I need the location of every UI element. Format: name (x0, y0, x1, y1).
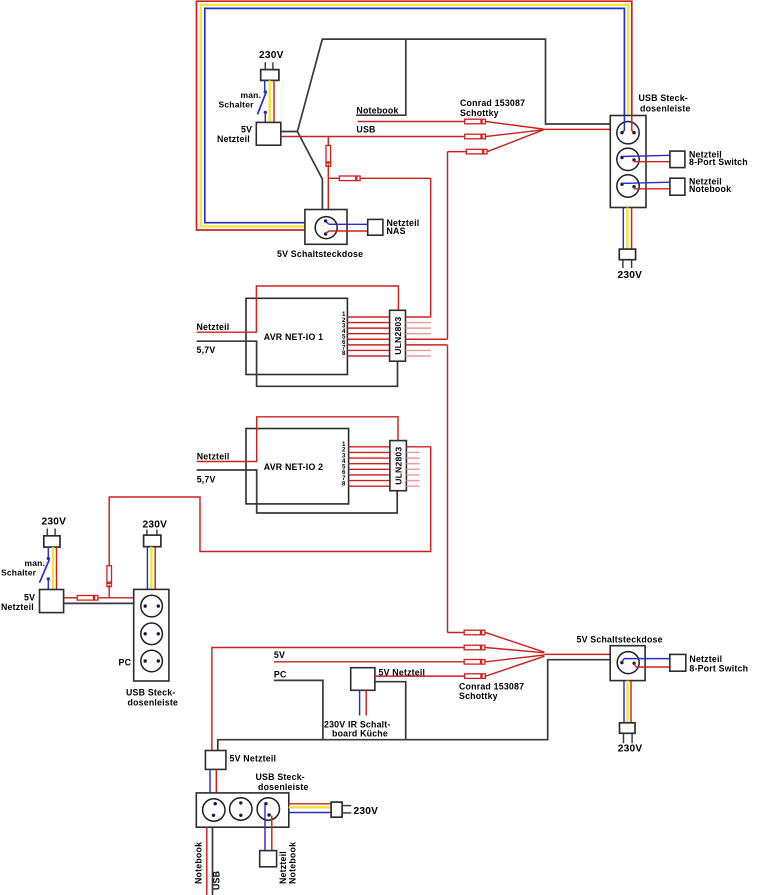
wire red feed (154, 547, 156, 590)
diode D11 (464, 630, 485, 635)
diode D7 (77, 596, 98, 601)
wire black usb down (212, 827, 214, 895)
wire red Notebook line (358, 121, 465, 123)
svg-text:ULN2803: ULN2803 (394, 447, 404, 485)
socket 2 (top strip) (617, 148, 639, 170)
stub ULN1 pin2 (406, 322, 432, 324)
svg-text:dosenleiste: dosenleiste (640, 104, 691, 114)
svg-text:5,7V: 5,7V (197, 475, 216, 485)
svg-text:Notebook: Notebook (194, 842, 204, 884)
power supply 5V Netzteil U1 (256, 122, 281, 145)
wire red bus B upper riser (447, 152, 449, 340)
wire red junction right (328, 177, 339, 179)
wire red plug to netzteil (273, 80, 275, 122)
wire blue schalt2 plug (623, 681, 625, 723)
svg-text:8: 8 (342, 350, 346, 357)
power supply Netzteil Notebook (top) (670, 178, 685, 195)
wire red plug to netzteil (bl) (56, 547, 58, 589)
switch man. Schalter (top) (258, 90, 267, 122)
stub ULN2 pin4 (406, 463, 419, 465)
wire red strip to plug (bottom) (289, 803, 331, 805)
diode D5 Conrad 153087 (466, 149, 487, 154)
prongs (strip feed plug) (147, 530, 157, 536)
wire blue B3 to notebook psu (264, 805, 266, 851)
stub ULN2 pin6 (406, 474, 419, 476)
label ULN2803 #1 (393, 317, 403, 355)
svg-text:Netzteil: Netzteil (1, 602, 34, 612)
plug 230V (bottom strip) (331, 802, 342, 817)
socket B3 (257, 798, 279, 820)
label 230V (bottom strip) (354, 806, 379, 817)
power supply 5V Netzteil U3 (351, 668, 375, 691)
wire red U3 line4 (375, 675, 465, 677)
pins socket 3 (620, 183, 635, 189)
stub ULN1 pin8 (406, 355, 432, 357)
wire red ULN1 pin1 out (406, 316, 431, 318)
diode D6 vertical (107, 566, 112, 587)
wire red ULN1 pin5 out (406, 338, 448, 340)
label Notebook (rotated) (194, 842, 204, 884)
wire yellow plug to netzteil (269, 80, 272, 122)
socket L3 (141, 650, 163, 672)
wire red netzteil 5V line (281, 136, 465, 138)
label ULN2803 #2 (394, 447, 404, 485)
label 5V Netzteil (U4) (230, 754, 277, 764)
svg-text:Schottky: Schottky (459, 691, 498, 701)
label PC (left strip) (119, 657, 132, 667)
wire blue to NAS psu (326, 222, 368, 225)
svg-text:230V: 230V (143, 520, 168, 531)
label 230V (bottom left) (42, 516, 67, 527)
wire black 5,7V AVR2 (197, 470, 398, 513)
plug 230V (top right) (619, 249, 635, 260)
wire red D7 to strip (98, 597, 134, 599)
plug 230V bottom-left (44, 536, 60, 547)
label Conrad 153087 (bottom) (459, 681, 524, 691)
socket circle (schaltsteckdose top) (315, 217, 337, 239)
label Netzteil (U2) (1, 602, 34, 612)
label Conrad 153087 (top) (460, 98, 525, 108)
plug 230V top-left prongs (265, 62, 273, 69)
label Notebook (rotated U5) (288, 842, 298, 884)
wire red D1 to fan (486, 122, 544, 130)
label 230V (strip feed) (143, 520, 168, 531)
wires AVR1 pins to ULN1 (347, 317, 389, 356)
wire black 5,7V AVR1 (197, 341, 398, 386)
svg-text:230V: 230V (259, 50, 284, 61)
socket circle (schaltsteckdose bottom) (617, 652, 639, 674)
svg-text:Netzteil: Netzteil (217, 134, 250, 144)
label 5V Netzteil (U3) (379, 668, 426, 678)
wire blue socket2 to switch-psu (622, 155, 670, 156)
wire red D6 to junction (108, 585, 110, 598)
power supply Netzteil 8-Port Switch (top) (670, 151, 685, 168)
wire red U4 to strip (215, 769, 217, 803)
svg-text:8-Port Switch: 8-Port Switch (689, 157, 748, 167)
wire red D11 to fan2 (485, 633, 544, 653)
diode D1 Conrad 153087 (465, 119, 486, 124)
wire red D4 to bus A (361, 177, 431, 179)
label Netzteil (U1) (217, 134, 250, 144)
label 230V IR Schalt- (324, 719, 391, 729)
svg-text:AVR NET-IO 1: AVR NET-IO 1 (264, 332, 323, 342)
pin numbers 1-8 (AVR2) (342, 441, 346, 487)
svg-text:USB Steck-: USB Steck- (256, 772, 305, 782)
label Netzteil (NAS) (387, 218, 420, 228)
pins socket B2 (239, 801, 242, 817)
label Notebook (net) (356, 106, 398, 116)
label 5,7V (AVR2) (197, 475, 216, 485)
diode D9 (464, 660, 485, 665)
diode D2 Conrad 153087 (465, 134, 486, 139)
stub ULN2 pin5 (406, 468, 419, 470)
svg-text:NAS: NAS (387, 226, 406, 236)
label 5V (U1) (241, 125, 252, 135)
wire black U3 to bus (375, 682, 406, 740)
label 5,7V (AVR1) (197, 345, 216, 355)
wire red busB to D11 (448, 632, 465, 634)
wire red netzteil AVR1 (197, 286, 399, 332)
svg-text:5,7V: 5,7V (197, 345, 216, 355)
diode D8 (464, 645, 485, 650)
label 5V Schaltsteckdose (bottom) (577, 634, 663, 644)
socket 3 (top strip) (617, 175, 639, 197)
power supply Netzteil 8-Port Switch (bottom) (670, 654, 686, 671)
wire red ULN1 pin6 out (406, 344, 448, 346)
wire red to 8-port psu (634, 664, 670, 667)
svg-text:Netzteil: Netzteil (197, 452, 230, 462)
wire blue U4 to strip (210, 769, 213, 815)
svg-text:8: 8 (342, 480, 346, 487)
label NAS (387, 226, 406, 236)
plug 230V top-left (261, 70, 279, 81)
svg-text:ULN2803: ULN2803 (393, 317, 403, 355)
label man. (241, 90, 262, 100)
pin numbers 1-8 (AVR1) (342, 311, 346, 357)
wire red netzteil AVR2 (197, 417, 398, 462)
wire blue socket3 to notebook-psu (622, 182, 670, 183)
label 5V Schaltsteckdose (top) (277, 249, 363, 259)
label Schalter (219, 100, 255, 110)
wire black notebook drop (356, 39, 406, 115)
svg-text:Schottky: Schottky (460, 108, 499, 118)
diode D4 horizontal (339, 176, 360, 181)
svg-text:230V: 230V (42, 516, 67, 527)
stub ULN2 pin7 (406, 480, 419, 482)
svg-text:230V: 230V (354, 806, 379, 817)
label 5V (bottom net) (274, 650, 285, 660)
wire red to NAS psu (326, 231, 368, 234)
wire blue U3 IR (359, 690, 361, 715)
wire red schalt2 plug (630, 681, 632, 723)
module AVR NET-IO 1 (246, 298, 347, 374)
label Notebook (top) (689, 184, 731, 194)
wire red line2 riser (212, 648, 464, 751)
svg-text:5V: 5V (274, 650, 285, 660)
wire red notebook down (206, 827, 208, 895)
prongs (bottom left plug) (47, 529, 55, 536)
label Netzteil (notebook top) (689, 177, 722, 187)
wire red strip to plug (631, 208, 633, 250)
wire blue plug to switch (264, 80, 266, 91)
wire black bottom bus (218, 660, 610, 751)
prongs (bottom right) (624, 733, 633, 743)
switched socket 5V Schaltsteckdose (top) (305, 210, 347, 245)
label USB (rotated) (212, 871, 222, 890)
svg-text:board Küche: board Küche (332, 729, 388, 739)
label Schottky (top) (460, 108, 499, 118)
wire black U2 to strip (64, 602, 134, 604)
svg-text:Netzteil: Netzteil (197, 322, 230, 332)
wire red socket3 to notebook-psu (634, 187, 670, 189)
socket 1 (top strip) (617, 122, 639, 144)
wire yellow strip to plug (bottom) (289, 806, 331, 808)
wire red bus A (430, 178, 432, 317)
socket L1 (141, 595, 163, 617)
label Schalter (bottom) (1, 568, 37, 578)
wire red D9 to fan2 (485, 655, 544, 662)
plug 230V (bottom right) (620, 723, 636, 734)
node fan2 out (544, 653, 617, 655)
label 230V (top right) (618, 270, 643, 281)
prongs (bottom strip plug) (342, 806, 351, 813)
wire red D5 to fan (488, 130, 544, 152)
svg-text:5V: 5V (24, 592, 35, 602)
svg-text:man.: man. (25, 558, 46, 568)
label dosenleiste (left strip) (128, 698, 179, 708)
label 8-Port Switch (bottom) (689, 663, 748, 673)
label AVR NET-IO 1 (264, 332, 323, 342)
plug 230V strip feed (144, 535, 161, 547)
svg-text:PC: PC (119, 657, 132, 667)
svg-text:PC: PC (274, 670, 287, 680)
wire yellow feed (150, 547, 152, 590)
power supply 5V Netzteil U2 (40, 590, 64, 613)
svg-text:Notebook: Notebook (356, 106, 398, 116)
svg-text:Schalter: Schalter (1, 568, 37, 578)
node fan-in top (544, 128, 611, 130)
switched socket 5V Schaltsteckdose (bottom) (610, 646, 645, 681)
module AVR NET-IO 2 (246, 429, 349, 504)
svg-text:Notebook: Notebook (288, 842, 298, 884)
label 5V (U2) (24, 592, 35, 602)
svg-text:Conrad 153087: Conrad 153087 (459, 681, 524, 691)
wire red bus B lower (447, 345, 449, 633)
wire red 5V line3 (274, 661, 464, 663)
svg-text:5V Netzteil: 5V Netzteil (230, 754, 277, 764)
power supply Netzteil NAS (368, 219, 383, 235)
wire red D10 to fan2 (486, 656, 545, 676)
pins socket L1 (144, 604, 161, 607)
wire red junction to schaltsteckdose (327, 178, 329, 209)
svg-text:5V Schaltsteckdose: 5V Schaltsteckdose (577, 634, 663, 644)
label Schottky (bottom) (459, 691, 498, 701)
wire blue 230V ring (205, 8, 625, 222)
wire yellow plug to netzteil (bl) (52, 547, 54, 589)
label Netzteil (8-port top) (689, 150, 722, 160)
label USB Steck- (bottom strip) (256, 772, 305, 782)
wire red B3 to notebook psu (271, 816, 273, 851)
label Netzteil (AVR1) (197, 322, 230, 332)
label USB (net) (356, 124, 375, 134)
stub ULN1 pin7 (406, 349, 432, 351)
label dosenleiste (top strip) (640, 104, 691, 114)
svg-text:dosenleiste: dosenleiste (258, 782, 309, 792)
wire blue plug to switch (bl) (47, 547, 49, 558)
power supply 5V Netzteil U4 (205, 751, 226, 770)
wire blue strip to plug (bottom) (289, 812, 331, 814)
socket B1 (203, 799, 225, 821)
svg-text:Conrad 153087: Conrad 153087 (460, 98, 525, 108)
power supply Netzteil Notebook U5 (260, 851, 277, 867)
pins (schaltsteckdose bottom) (620, 661, 636, 665)
label Netzteil (8-port bottom) (689, 654, 722, 664)
wire yellow schalt2 plug (626, 681, 628, 723)
wire yellow 230V ring (201, 5, 628, 227)
label 8-Port Switch (top) (689, 157, 748, 167)
svg-text:USB Steck-: USB Steck- (639, 93, 688, 103)
label Netzteil (AVR2) (197, 452, 230, 462)
svg-text:USB Steck-: USB Steck- (126, 688, 175, 698)
wire blue drop to socket1 (622, 116, 624, 133)
pins socket 2 (620, 156, 635, 162)
stub ULN2 pin3 (406, 457, 419, 459)
wires AVR2 pins to ULN2 (349, 447, 390, 486)
svg-text:Notebook: Notebook (689, 184, 731, 194)
switch man. Schalter (bottom) (40, 557, 51, 590)
label USB Steck- (top strip) (639, 93, 688, 103)
socket B2 (230, 798, 252, 820)
wire blue strip to plug (622, 208, 624, 250)
wire red 230V ring (197, 1, 632, 230)
svg-text:230V: 230V (618, 744, 643, 755)
wire blue feed (146, 547, 148, 590)
diode D10 (465, 674, 486, 679)
svg-text:man.: man. (241, 90, 262, 100)
label 230V (bottom right) (618, 744, 643, 755)
svg-text:Netzteil: Netzteil (689, 654, 722, 664)
power strip USB Steckdosenleiste (top right) (610, 116, 646, 208)
svg-text:dosenleiste: dosenleiste (128, 698, 179, 708)
power strip USB Steckdosenleiste (left) (134, 589, 169, 681)
wire black netzteil to schaltsteckdose (297, 132, 322, 210)
wire red ULN2 pin1 long path (109, 447, 431, 566)
svg-text:Netzteil: Netzteil (278, 851, 288, 884)
svg-text:USB: USB (212, 871, 222, 890)
wire yellow strip to plug (626, 208, 628, 250)
wire red socket2 to switch-psu (634, 161, 670, 162)
pins socket B1 (212, 802, 217, 817)
socket L2 (141, 623, 163, 645)
stub ULN1 pin3 (406, 327, 432, 329)
wire red drop to socket1 (632, 116, 634, 133)
label 230V (top plug) (259, 50, 284, 61)
svg-text:230V: 230V (618, 270, 643, 281)
label dosenleiste (bottom strip) (258, 782, 309, 792)
stub ULN2 pin2 (406, 451, 419, 453)
pins socket L2 (144, 632, 161, 635)
svg-text:8-Port Switch: 8-Port Switch (689, 663, 748, 673)
pins socket L3 (144, 659, 161, 662)
power strip USB Steckdosenleiste (bottom) (196, 793, 288, 827)
wire red bus B to D5 (448, 151, 467, 153)
pins socket 1 (620, 131, 635, 134)
wire red U3 IR (365, 690, 367, 715)
label man. (bottom) (25, 558, 46, 568)
pins socket B3 (264, 802, 271, 817)
wire red D8 to fan2 (485, 648, 544, 653)
wire blue to 8-port psu (622, 659, 670, 662)
svg-text:Schalter: Schalter (219, 100, 255, 110)
svg-text:AVR NET-IO 2: AVR NET-IO 2 (264, 462, 323, 472)
wire red D2 to fan (486, 130, 544, 137)
wire red branch down (327, 137, 329, 146)
driver ULN2803 #1 (390, 310, 406, 361)
stub ULN1 pin4 (406, 333, 432, 335)
stub ULN2 pin8 (406, 485, 419, 487)
prongs 230V (top right) (623, 260, 632, 268)
wire black PC line (274, 680, 323, 739)
svg-text:5V Schaltsteckdose: 5V Schaltsteckdose (277, 249, 363, 259)
driver ULN2803 #2 (390, 441, 407, 491)
wire black netzteil to ring top (281, 39, 611, 131)
wire red U2 out (64, 597, 78, 599)
diode D3 vertical (326, 145, 331, 166)
wire red D3 to junction (327, 164, 329, 178)
label board Kueche (332, 729, 388, 739)
svg-text:USB: USB (356, 124, 375, 134)
label PC (bottom net) (274, 670, 287, 680)
label USB Steck- (left strip) (126, 688, 175, 698)
label Netzteil (rotated U5) (278, 851, 288, 884)
label AVR NET-IO 2 (264, 462, 323, 472)
pins (schaltsteckdose top) (324, 219, 327, 236)
